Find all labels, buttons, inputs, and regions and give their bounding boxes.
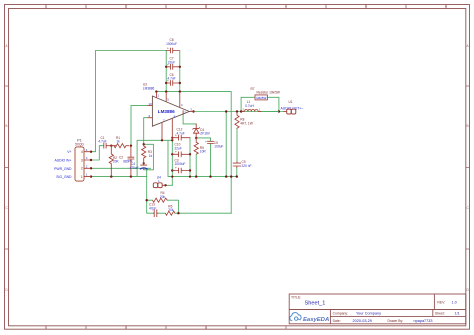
svg-text:10R: 10R — [200, 150, 207, 154]
wire D1 top feed — [183, 115, 196, 124]
connector P1 — [54, 139, 91, 181]
svg-text:100uF: 100uF — [214, 145, 223, 149]
svg-text:Sheet:: Sheet: — [435, 312, 445, 316]
wire inverting input — [144, 118, 148, 145]
svg-text:LM3886: LM3886 — [143, 86, 155, 90]
wire noninverting input — [131, 106, 148, 146]
resistor R6 — [165, 204, 175, 215]
resistor R2 — [109, 146, 119, 177]
svg-text:5XQD: 5XQD — [75, 142, 84, 146]
wire PWR_GND row — [91, 167, 151, 169]
svg-text:10: 10 — [149, 102, 153, 106]
svg-text:22uF: 22uF — [168, 60, 175, 64]
wire V+ from P1 pin4 up and right to cap rail — [91, 51, 166, 152]
svg-text:2: 2 — [125, 326, 127, 330]
capacitor C13 — [149, 203, 158, 217]
connector U1 AUDIO OUT — [281, 100, 304, 114]
svg-text:22uF: 22uF — [175, 146, 182, 150]
wire feedback bottom row C13 R6 — [147, 200, 232, 213]
svg-text:+: + — [167, 63, 169, 67]
svg-text:5: 5 — [365, 5, 367, 9]
svg-text:B: B — [5, 124, 7, 128]
svg-text:U1: U1 — [289, 100, 293, 104]
svg-text:470uF: 470uF — [130, 166, 139, 170]
svg-text:TITLE:: TITLE: — [291, 296, 301, 300]
svg-text:R7: R7 — [251, 87, 255, 91]
svg-text:3: 3 — [81, 158, 83, 162]
svg-text:0.7uH: 0.7uH — [245, 104, 254, 108]
svg-text:4: 4 — [285, 5, 287, 9]
svg-text:4.7uF: 4.7uF — [177, 131, 185, 135]
capacitor C1 — [98, 136, 116, 149]
svg-text:+: + — [167, 47, 169, 51]
resistor R7 (box style) — [251, 87, 280, 100]
svg-text:220 nF: 220 nF — [242, 164, 252, 168]
wire output to ground rail — [225, 112, 227, 177]
wire D1 bottom to R5 C5 — [196, 138, 210, 141]
svg-text:PWR_GND: PWR_GND — [54, 167, 72, 171]
wire cap stack left rail — [171, 138, 173, 186]
svg-text:4R7, 1W: 4R7, 1W — [240, 121, 252, 125]
svg-text:AUDIO IN+: AUDIO IN+ — [54, 159, 71, 163]
wire output main — [194, 111, 283, 113]
svg-text:Sheet_1: Sheet_1 — [305, 300, 326, 306]
wire feedback top row R4 — [147, 200, 179, 213]
wire cap chain right rail — [179, 51, 181, 92]
svg-text:+: + — [175, 150, 177, 154]
svg-text:2: 2 — [125, 5, 127, 9]
svg-text:Drawn By:: Drawn By: — [388, 319, 404, 323]
svg-text:6: 6 — [445, 5, 447, 9]
svg-text:Date:: Date: — [333, 319, 341, 323]
svg-text:SIG_GND: SIG_GND — [56, 175, 72, 179]
svg-text:4: 4 — [81, 150, 83, 154]
svg-text:Resistor 10k/5W: Resistor 10k/5W — [257, 91, 280, 95]
svg-text:1.0: 1.0 — [452, 301, 457, 305]
svg-text:Company:: Company: — [333, 312, 349, 316]
svg-text:1000uF: 1000uF — [166, 42, 177, 46]
wire junction dots — [90, 66, 280, 215]
wire audio-in from P1 pin3 to C1 — [91, 146, 103, 160]
svg-text:1: 1 — [81, 175, 83, 179]
capacitor C12 — [172, 128, 190, 141]
inductor L1 — [241, 100, 279, 112]
resistor R4 — [153, 191, 168, 202]
wire ground rail right — [168, 140, 237, 176]
svg-text:LM3886: LM3886 — [158, 109, 175, 114]
capacitor C9 — [233, 160, 252, 168]
svg-text:1: 1 — [45, 326, 47, 330]
svg-text:10k/5W: 10k/5W — [256, 96, 266, 100]
svg-text:1/1: 1/1 — [455, 312, 460, 316]
svg-text:Your Company: Your Company — [356, 312, 381, 316]
wire SIG_GND row — [91, 176, 147, 178]
op-amp U3 LM3886 — [143, 83, 195, 141]
svg-text:47pF: 47pF — [149, 206, 156, 210]
wire U4 to rail — [166, 184, 173, 186]
resistor R1 — [114, 136, 129, 148]
zener diode D1 — [193, 124, 211, 138]
svg-text:4.7uF: 4.7uF — [98, 140, 106, 144]
svg-text:3: 3 — [205, 326, 207, 330]
wire R8 to C9 — [236, 129, 238, 162]
wire cap chain left rail — [165, 51, 167, 92]
capacitor C6 — [166, 73, 180, 86]
EasyEDA logo — [290, 313, 329, 324]
capacitor C4 — [130, 162, 148, 170]
svg-text:1k: 1k — [116, 140, 120, 144]
svg-text:2020-03-29: 2020-03-29 — [353, 319, 372, 323]
resistor R5 — [194, 138, 206, 154]
svg-text:REV:: REV: — [437, 301, 445, 305]
connector U4 — [153, 175, 165, 187]
wire R5 bottom to ground — [195, 154, 197, 176]
svg-text:2: 2 — [81, 167, 83, 171]
wire inverting loop to C4 bottom node — [144, 144, 154, 170]
svg-text:1000uF: 1000uF — [175, 162, 186, 166]
wire mute pins line — [137, 140, 172, 176]
svg-text:+: + — [205, 140, 207, 144]
wire C4 bottom down to feedback node — [146, 170, 148, 200]
capacitor C2 — [119, 146, 134, 177]
svg-text:20K: 20K — [113, 160, 120, 164]
svg-text:+: + — [175, 166, 177, 170]
wire cap stack right rail — [189, 138, 191, 177]
svg-text:AUDIO OUT+~: AUDIO OUT+~ — [281, 107, 304, 111]
svg-text:EasyEDA: EasyEDA — [303, 317, 329, 323]
capacitor C10 — [172, 143, 190, 158]
resistor R3 — [142, 144, 153, 163]
wire C5 bottom to ground — [210, 144, 212, 177]
wire supply rail above op-amp — [156, 92, 231, 214]
svg-text:B: B — [467, 124, 469, 128]
svg-text:4: 4 — [245, 326, 247, 330]
capacitor C7 — [166, 57, 180, 70]
capacitor C3 — [172, 158, 190, 173]
svg-text:1k: 1k — [149, 154, 153, 158]
resistor R8 — [235, 112, 253, 130]
capacitor C8 — [166, 38, 180, 53]
svg-text:npapa7733: npapa7733 — [414, 319, 433, 323]
wire C9 bottom stub — [236, 168, 238, 177]
svg-text:V+: V+ — [67, 150, 71, 154]
svg-text:1: 1 — [45, 5, 47, 9]
capacitor C5 — [205, 140, 223, 149]
svg-text:+: + — [167, 79, 169, 83]
svg-text:3: 3 — [205, 5, 207, 9]
wire R7 branch up and over — [241, 97, 279, 111]
svg-text:ZF16V: ZF16V — [200, 132, 210, 136]
